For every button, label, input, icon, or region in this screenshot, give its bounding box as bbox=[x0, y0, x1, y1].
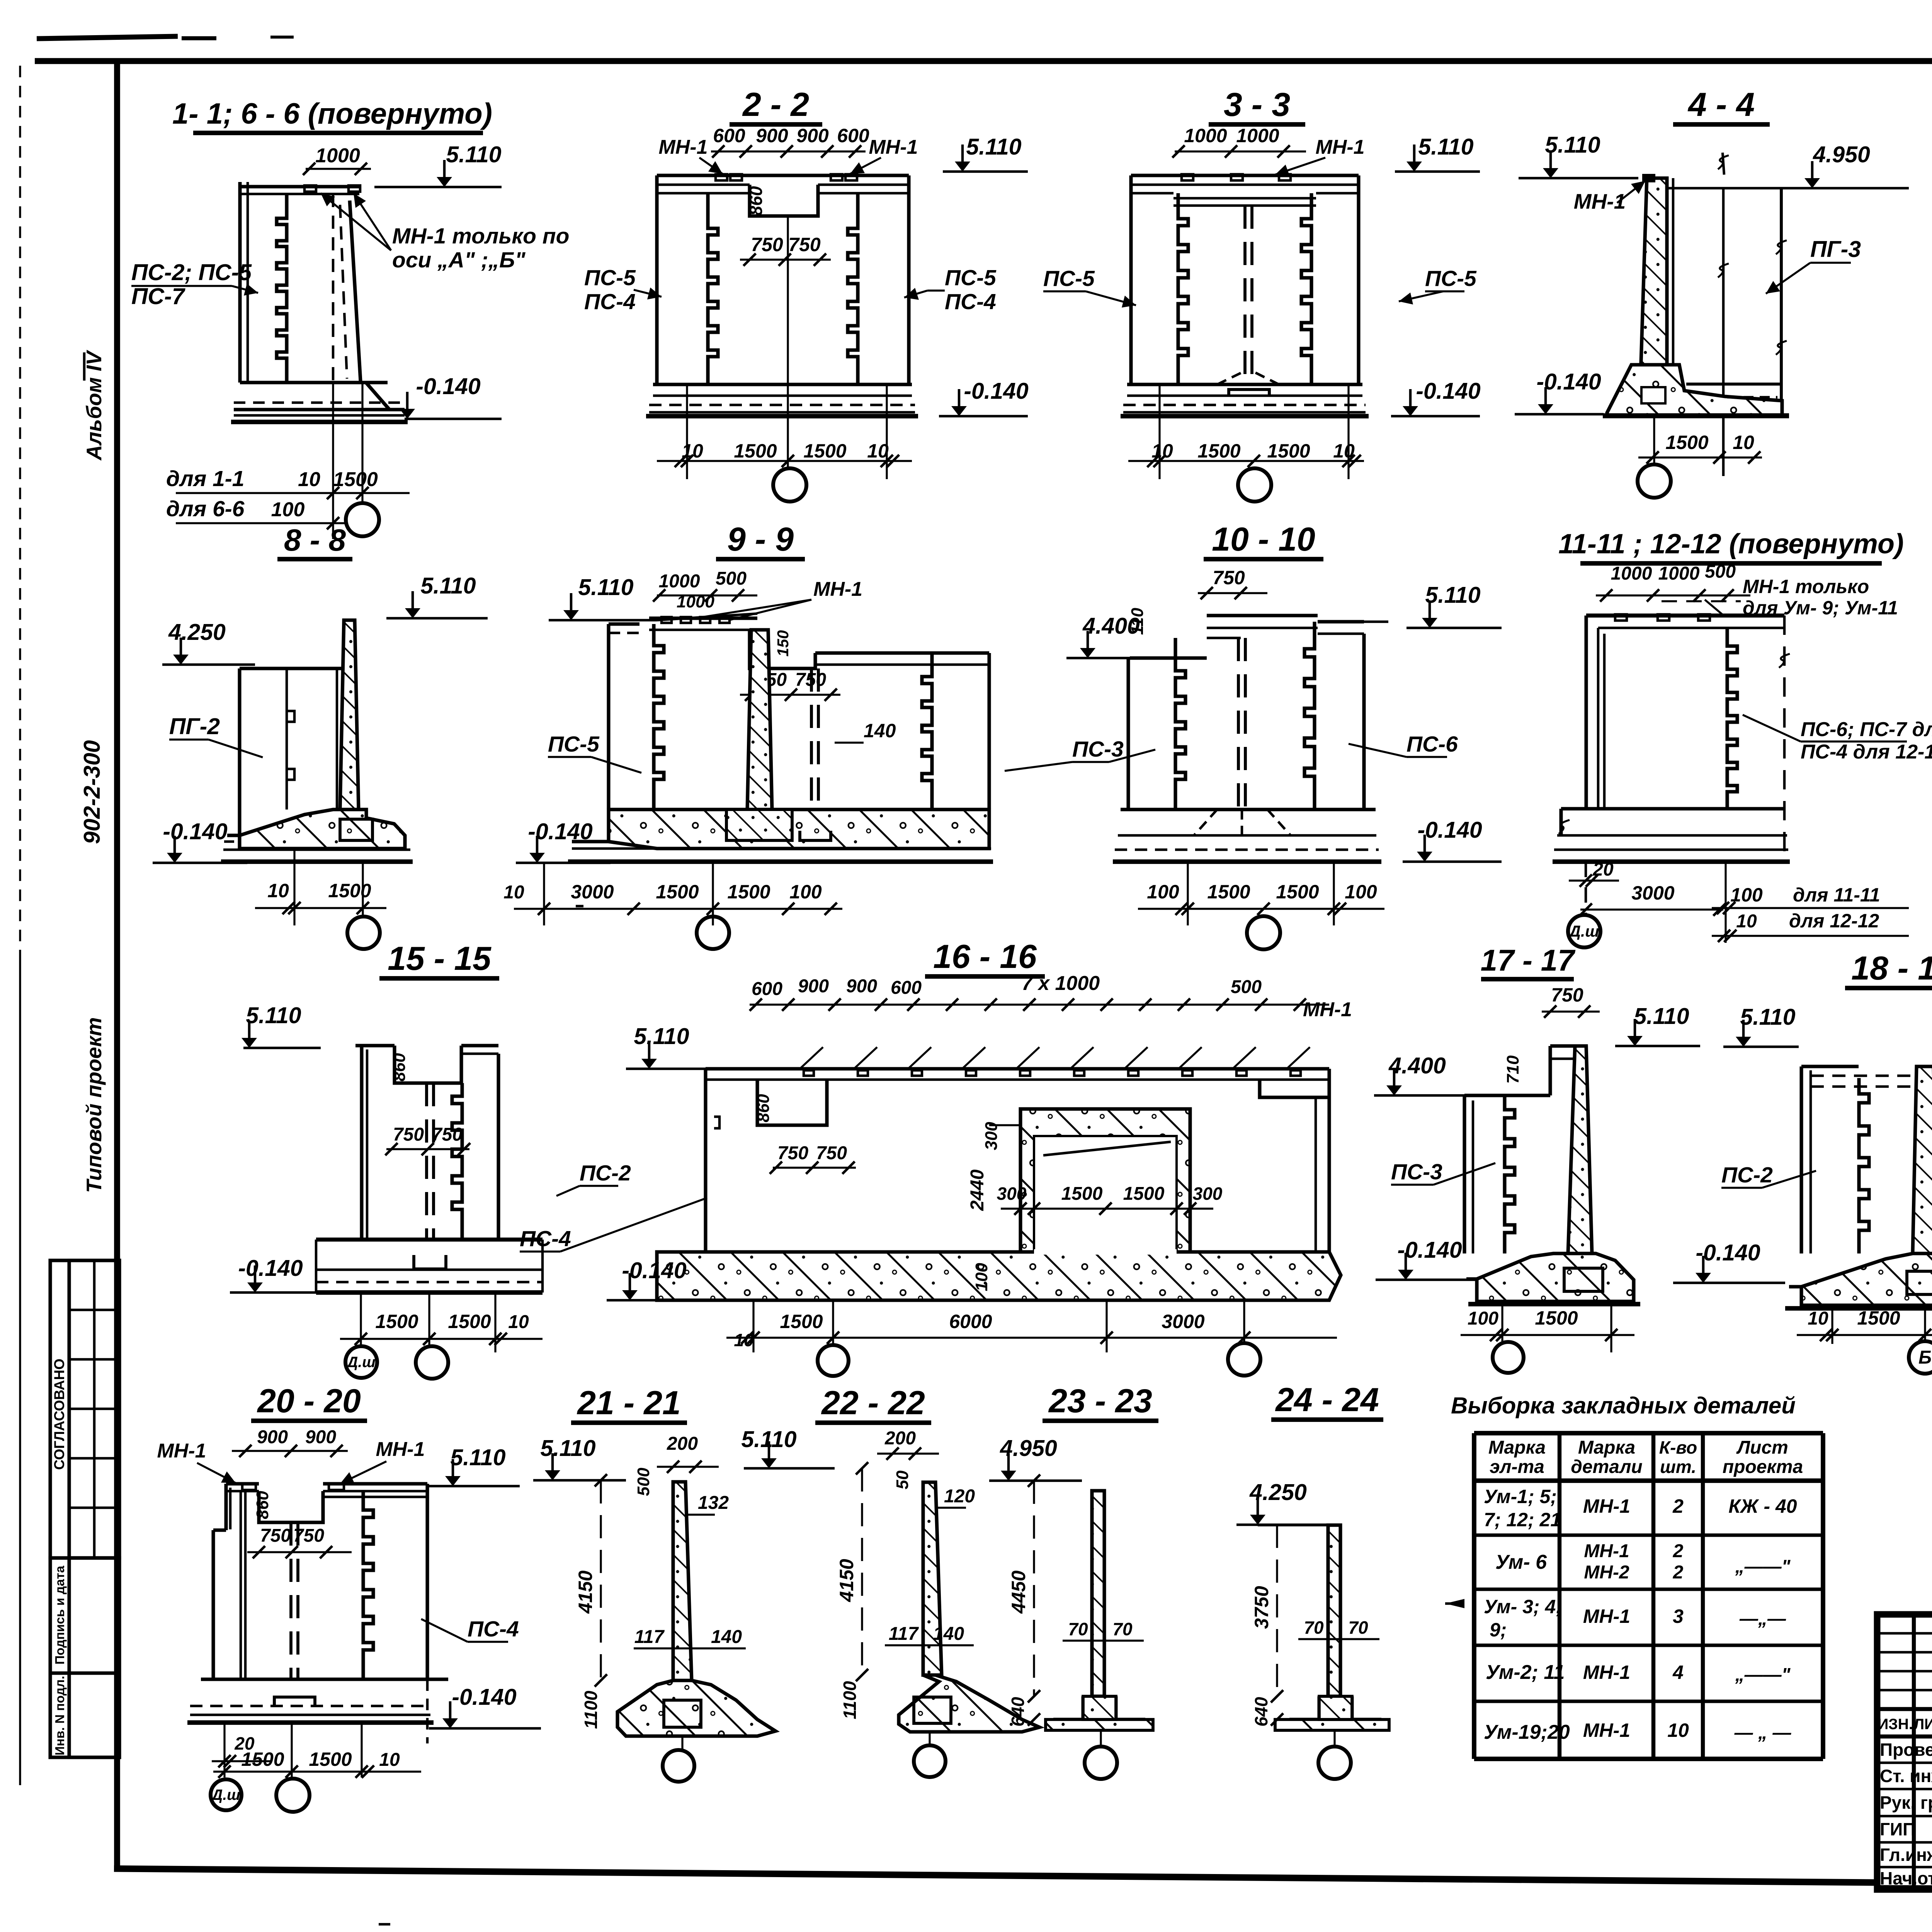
svg-text:МН-1: МН-1 bbox=[157, 1440, 206, 1462]
svg-text:132: 132 bbox=[698, 1493, 729, 1513]
svg-text:для 6-6: для 6-6 bbox=[166, 497, 245, 521]
svg-text:ПС-7: ПС-7 bbox=[131, 284, 186, 309]
svg-text:ПС-5: ПС-5 bbox=[584, 265, 636, 290]
svg-text:1500: 1500 bbox=[1197, 440, 1240, 462]
svg-text:1500: 1500 bbox=[780, 1311, 823, 1332]
svg-text:МН-1: МН-1 bbox=[1583, 1605, 1630, 1627]
svg-text:900: 900 bbox=[756, 125, 788, 146]
svg-text:500: 500 bbox=[1705, 561, 1736, 582]
svg-text:16 - 16: 16 - 16 bbox=[933, 938, 1037, 975]
svg-text:МН-1: МН-1 bbox=[1583, 1495, 1630, 1517]
svg-text:ЛИСТ: ЛИСТ bbox=[1914, 1716, 1932, 1733]
svg-text:МН-1: МН-1 bbox=[1303, 998, 1352, 1021]
svg-text:оси „А" ;„Б": оси „А" ;„Б" bbox=[392, 248, 526, 272]
svg-text:70: 70 bbox=[1304, 1617, 1324, 1638]
svg-text:Подпись и дата: Подпись и дата bbox=[53, 1566, 67, 1665]
svg-text:1500: 1500 bbox=[448, 1311, 491, 1332]
svg-text:860: 860 bbox=[746, 186, 766, 216]
svg-text:140: 140 bbox=[933, 1624, 964, 1644]
svg-text:11-11 ; 12-12 (повернуто): 11-11 ; 12-12 (повернуто) bbox=[1558, 529, 1904, 560]
section 4-4 axis circle bbox=[1638, 464, 1671, 498]
svg-text:22 - 22: 22 - 22 bbox=[821, 1384, 925, 1422]
svg-text:600: 600 bbox=[713, 125, 745, 146]
svg-text:750: 750 bbox=[393, 1124, 424, 1145]
svg-text:МН-1: МН-1 bbox=[1583, 1719, 1630, 1741]
svg-text:640: 640 bbox=[1251, 1697, 1271, 1726]
svg-text:К-во: К-во bbox=[1659, 1437, 1697, 1458]
svg-text:860: 860 bbox=[754, 1094, 773, 1122]
section 23-23 footing bbox=[1053, 1696, 1083, 1719]
section 9-9 left wall bbox=[607, 624, 610, 810]
section 16-16 elevation 5.110 bbox=[626, 1068, 707, 1070]
section 1-1 monolithic column bbox=[350, 201, 361, 381]
svg-text:2440: 2440 bbox=[967, 1169, 988, 1211]
svg-text:— „ —: — „ — bbox=[1734, 1723, 1792, 1743]
section 24-24 column bbox=[1328, 1525, 1340, 1696]
section 3-3 elevation -0.140 bbox=[1391, 415, 1480, 418]
svg-text:100: 100 bbox=[1345, 881, 1377, 903]
svg-text:5.110: 5.110 bbox=[634, 1024, 689, 1049]
svg-text:-0.140: -0.140 bbox=[622, 1258, 686, 1283]
section 17-17 axis circle bbox=[1493, 1342, 1524, 1373]
svg-text:750: 750 bbox=[788, 234, 821, 255]
section 2-2 top slab bbox=[657, 173, 909, 177]
svg-text:10: 10 bbox=[1667, 1719, 1689, 1741]
section 15-15 center axis dashed bbox=[425, 1083, 428, 1240]
svg-text:4450: 4450 bbox=[1008, 1570, 1029, 1614]
section 2-2 elevation -0.140 bbox=[939, 415, 1028, 418]
svg-text:1500: 1500 bbox=[241, 1748, 284, 1770]
svg-text:МН-1: МН-1 bbox=[1583, 1662, 1630, 1683]
svg-text:1000: 1000 bbox=[1184, 125, 1227, 146]
svg-text:ПС-4: ПС-4 bbox=[584, 289, 636, 314]
svg-text:Гл.инж.от: Гл.инж.от bbox=[1880, 1845, 1932, 1865]
svg-text:5.110: 5.110 bbox=[1634, 1003, 1689, 1029]
svg-text:5.110: 5.110 bbox=[1418, 134, 1473, 160]
section 2-2 elevation 5.110 bbox=[943, 170, 1028, 173]
svg-text:640: 640 bbox=[1008, 1697, 1028, 1726]
section 17-17 footing bbox=[1477, 1253, 1634, 1301]
svg-text:проекта: проекта bbox=[1723, 1457, 1803, 1477]
svg-text:Б: Б bbox=[1918, 1347, 1932, 1368]
section 20-20 circles bbox=[211, 1779, 241, 1810]
svg-text:1500: 1500 bbox=[333, 468, 378, 491]
section 20-20 top slab bbox=[226, 1482, 259, 1485]
section 2-2 center notch 860 bbox=[750, 185, 818, 216]
svg-text:10: 10 bbox=[1808, 1308, 1828, 1329]
left margin box: Подпись и дата / Инв. № подл. bbox=[50, 1558, 119, 1757]
section 9-9 elevation -0.140 bbox=[516, 862, 611, 864]
section 1-1 elevation -0.140 bbox=[405, 418, 502, 420]
section 4-4 footing bbox=[1607, 365, 1782, 416]
section 9-9 elevation 5.110 bbox=[549, 619, 657, 622]
svg-text:3 - 3: 3 - 3 bbox=[1224, 86, 1290, 123]
svg-text:СОГЛАСОВАНО: СОГЛАСОВАНО bbox=[51, 1359, 67, 1470]
section 9-9 notch 860 bbox=[750, 630, 815, 668]
svg-text:20 - 20: 20 - 20 bbox=[257, 1383, 361, 1420]
svg-text:750: 750 bbox=[777, 1143, 808, 1163]
section 4-4 elevation -0.140 bbox=[1515, 413, 1604, 416]
section 21-21 axis circle bbox=[663, 1750, 694, 1782]
svg-text:5.110: 5.110 bbox=[1740, 1004, 1795, 1030]
svg-text:5.110: 5.110 bbox=[246, 1003, 301, 1028]
svg-text:750: 750 bbox=[432, 1124, 463, 1145]
svg-text:4150: 4150 bbox=[836, 1559, 857, 1602]
svg-text:Ум- 3; 4;: Ум- 3; 4; bbox=[1484, 1596, 1562, 1617]
section 8-8 wall bbox=[240, 667, 344, 670]
section 2-2 axis circle bbox=[773, 468, 806, 502]
section 8-8 footing bbox=[240, 810, 405, 849]
svg-text:1- 1; 6 - 6 (повернуто): 1- 1; 6 - 6 (повернуто) bbox=[172, 97, 492, 130]
svg-text:Выборка закладных деталей: Выборка закладных деталей bbox=[1451, 1393, 1796, 1418]
section 1-1 elevation 5.110 bbox=[374, 186, 502, 189]
section 16-16 right end bbox=[1260, 1080, 1329, 1097]
svg-text:-0.140: -0.140 bbox=[1536, 369, 1601, 395]
svg-text:50: 50 bbox=[893, 1470, 912, 1489]
section 15-15 right wall bbox=[497, 1054, 500, 1240]
svg-text:750: 750 bbox=[816, 1143, 847, 1163]
section 10-10 elevation 5.110 bbox=[1406, 627, 1502, 629]
svg-text:8 - 8: 8 - 8 bbox=[284, 523, 346, 557]
svg-text:10: 10 bbox=[1736, 911, 1757, 932]
section 23-23 axis circle bbox=[1085, 1747, 1117, 1779]
section 3-3 top slab bbox=[1131, 173, 1359, 177]
svg-text:Марка: Марка bbox=[1578, 1437, 1635, 1458]
svg-text:1500: 1500 bbox=[1207, 881, 1250, 903]
svg-text:5.110: 5.110 bbox=[578, 575, 633, 600]
svg-text:300: 300 bbox=[1193, 1184, 1223, 1204]
svg-text:ПС-2: ПС-2 bbox=[1721, 1163, 1773, 1187]
svg-text:900: 900 bbox=[798, 976, 829, 997]
svg-text:1500: 1500 bbox=[375, 1311, 418, 1332]
svg-text:5.110: 5.110 bbox=[741, 1427, 796, 1452]
svg-text:750: 750 bbox=[1213, 567, 1245, 588]
svg-text:„——": „——" bbox=[1735, 1556, 1791, 1577]
svg-text:5.110: 5.110 bbox=[966, 134, 1021, 160]
svg-text:Ум-2; 11: Ум-2; 11 bbox=[1486, 1661, 1565, 1684]
svg-text:860: 860 bbox=[253, 1491, 272, 1519]
svg-text:1100: 1100 bbox=[840, 1681, 860, 1719]
section 8-8 elevation -0.140 bbox=[153, 862, 247, 864]
svg-text:ПС-5: ПС-5 bbox=[1043, 266, 1095, 291]
svg-text:10: 10 bbox=[298, 468, 320, 491]
section 15-15 top bbox=[355, 1044, 395, 1047]
section 18-18 elevation -0.140 bbox=[1673, 1282, 1785, 1284]
section 3-3 axis circle bbox=[1238, 468, 1271, 502]
svg-text:ПС-4: ПС-4 bbox=[945, 289, 996, 314]
section 15-15 circles bbox=[345, 1346, 377, 1378]
section 22-22 column bbox=[923, 1482, 942, 1675]
section 3-3 footing bbox=[1127, 383, 1362, 386]
svg-text:9 - 9: 9 - 9 bbox=[727, 521, 794, 558]
section 24-24 footing bbox=[1289, 1696, 1319, 1719]
section 1-1 axis circle bbox=[346, 503, 379, 536]
section 21-21 footing bbox=[617, 1680, 776, 1736]
svg-text:10 - 10: 10 - 10 bbox=[1212, 521, 1315, 558]
svg-text:200: 200 bbox=[884, 1428, 916, 1449]
svg-text:Типовой проект: Типовой проект bbox=[82, 1017, 106, 1193]
section 9-9 right wall bbox=[987, 653, 991, 810]
svg-text:1500: 1500 bbox=[1123, 1184, 1165, 1204]
svg-text:Д.ш: Д.ш bbox=[346, 1354, 376, 1371]
svg-text:600: 600 bbox=[891, 978, 922, 998]
section 8-8 elevation 4.250 bbox=[162, 663, 255, 666]
svg-text:4 - 4: 4 - 4 bbox=[1687, 86, 1755, 123]
svg-text:1500: 1500 bbox=[1061, 1184, 1103, 1204]
svg-text:Рук. гр.: Рук. гр. bbox=[1880, 1793, 1932, 1813]
section 20-20 elevation 5.110 bbox=[429, 1485, 520, 1488]
section 10-10 axis circle bbox=[1247, 916, 1280, 949]
svg-text:10: 10 bbox=[379, 1750, 400, 1770]
svg-text:5.110: 5.110 bbox=[446, 142, 501, 167]
section 2-2 footing bbox=[653, 383, 912, 386]
svg-text:ПС-5: ПС-5 bbox=[1425, 266, 1477, 291]
svg-text:ИЗН.: ИЗН. bbox=[1878, 1716, 1913, 1733]
svg-text:ПГ-3: ПГ-3 bbox=[1810, 236, 1861, 262]
svg-text:-0.140: -0.140 bbox=[416, 374, 480, 399]
section 9-9 top slab bbox=[609, 622, 639, 626]
section 3-3 right wall bbox=[1357, 175, 1360, 384]
section 11-11 right notched edge bbox=[1727, 634, 1737, 809]
svg-text:15 - 15: 15 - 15 bbox=[388, 940, 492, 977]
section 20-20 center axis dashed bbox=[289, 1522, 293, 1679]
svg-text:1500: 1500 bbox=[803, 440, 846, 462]
svg-text:шт.: шт. bbox=[1660, 1457, 1696, 1477]
svg-text:-0.140: -0.140 bbox=[964, 378, 1028, 404]
section 9-9 center axis dashed bbox=[810, 668, 813, 825]
svg-text:„——": „——" bbox=[1735, 1665, 1791, 1685]
section 16-16 door opening bbox=[1020, 1109, 1190, 1252]
svg-text:2 - 2: 2 - 2 bbox=[742, 86, 809, 123]
section 16-16 circles bbox=[818, 1345, 849, 1376]
svg-text:Лист: Лист bbox=[1736, 1437, 1788, 1458]
svg-text:1500: 1500 bbox=[727, 881, 770, 903]
svg-text:100: 100 bbox=[1468, 1308, 1498, 1329]
section 17-17 monolithic column bbox=[1568, 1046, 1592, 1253]
section 3-3 center axis bbox=[1243, 206, 1247, 386]
svg-text:750: 750 bbox=[1551, 984, 1583, 1006]
section 18-18 left wall bbox=[1799, 1066, 1803, 1253]
svg-text:10: 10 bbox=[508, 1312, 529, 1332]
svg-text:5.110: 5.110 bbox=[420, 573, 476, 599]
svg-text:ПС-3: ПС-3 bbox=[1072, 737, 1124, 762]
section 21-21 elevation 5.110 bbox=[533, 1479, 626, 1482]
svg-text:для 1-1: для 1-1 bbox=[166, 466, 244, 491]
title block mini revision rows bbox=[1877, 1632, 1932, 1635]
svg-text:ПС-3: ПС-3 bbox=[1391, 1160, 1442, 1184]
svg-text:Ст. инж.: Ст. инж. bbox=[1880, 1766, 1932, 1786]
svg-text:3000: 3000 bbox=[1631, 882, 1674, 904]
svg-text:ПС-4 для 12-12: ПС-4 для 12-12 bbox=[1801, 741, 1932, 763]
svg-text:1500: 1500 bbox=[656, 881, 699, 903]
svg-text:-0.140: -0.140 bbox=[238, 1255, 303, 1281]
svg-text:200: 200 bbox=[667, 1434, 698, 1454]
svg-text:-0.140: -0.140 bbox=[1416, 378, 1480, 404]
svg-text:МН-1: МН-1 bbox=[1315, 136, 1364, 158]
svg-text:ПС-2: ПС-2 bbox=[580, 1161, 631, 1185]
svg-text:1500: 1500 bbox=[1665, 432, 1708, 453]
svg-text:Ум-1; 5;: Ум-1; 5; bbox=[1484, 1486, 1557, 1507]
section 20-20 elevation -0.140 bbox=[429, 1727, 541, 1730]
svg-text:Нач.отд.: Нач.отд. bbox=[1880, 1868, 1932, 1888]
svg-text:1500: 1500 bbox=[1857, 1307, 1900, 1329]
section 3-3 elevation 5.110 bbox=[1395, 170, 1480, 173]
section 8-8 axis circle bbox=[347, 917, 380, 949]
sheet edge lines bbox=[19, 66, 21, 958]
section 3-3 left wall bbox=[1129, 175, 1133, 384]
svg-text:750: 750 bbox=[260, 1526, 291, 1546]
svg-text:70: 70 bbox=[1068, 1619, 1088, 1639]
svg-text:МН-1: МН-1 bbox=[658, 136, 707, 158]
svg-text:МН-1: МН-1 bbox=[1584, 1541, 1629, 1561]
svg-text:900: 900 bbox=[257, 1427, 288, 1447]
svg-text:-0.140: -0.140 bbox=[1417, 817, 1482, 843]
section 24-24 elevation 4.250 bbox=[1236, 1524, 1331, 1526]
svg-text:ПС-5: ПС-5 bbox=[945, 265, 997, 290]
svg-text:7; 12; 21: 7; 12; 21 bbox=[1484, 1509, 1561, 1531]
section 11-11 wall box bbox=[1586, 614, 1784, 617]
svg-text:600: 600 bbox=[752, 979, 782, 999]
svg-text:1000: 1000 bbox=[659, 571, 700, 592]
svg-text:2: 2 bbox=[1673, 1541, 1684, 1561]
svg-text:МН-1 только по: МН-1 только по bbox=[392, 224, 569, 248]
section 10-10 right wall bbox=[1362, 634, 1366, 810]
svg-text:МН-2: МН-2 bbox=[1584, 1562, 1629, 1583]
svg-text:2: 2 bbox=[1673, 1562, 1684, 1583]
svg-text:4.250: 4.250 bbox=[1249, 1480, 1307, 1505]
section 4-4 wall lines bbox=[1672, 178, 1675, 365]
scan artifacts top-left bbox=[37, 36, 178, 39]
svg-text:ПС-6: ПС-6 bbox=[1406, 732, 1458, 757]
svg-text:110: 110 bbox=[1128, 607, 1147, 635]
section 10-10 elevation 4.400 bbox=[1066, 657, 1162, 660]
svg-text:ГИП: ГИП bbox=[1880, 1819, 1915, 1839]
svg-text:1000: 1000 bbox=[1236, 125, 1279, 146]
section 2-2 right wall bbox=[907, 175, 910, 384]
svg-text:3000: 3000 bbox=[1162, 1311, 1204, 1332]
svg-text:Альбом IV: Альбом IV bbox=[82, 350, 106, 461]
section 4-4 elevation 5.110 bbox=[1519, 177, 1638, 180]
svg-text:Марка: Марка bbox=[1488, 1437, 1546, 1458]
svg-text:МН-1: МН-1 bbox=[869, 136, 918, 158]
svg-text:710: 710 bbox=[1503, 1055, 1522, 1084]
svg-text:17 - 17: 17 - 17 bbox=[1481, 943, 1576, 977]
svg-text:Ум- 6: Ум- 6 bbox=[1495, 1551, 1547, 1573]
svg-text:-0.140: -0.140 bbox=[452, 1684, 516, 1710]
svg-text:70: 70 bbox=[1348, 1617, 1368, 1638]
svg-text:7 x 1000: 7 x 1000 bbox=[1022, 972, 1100, 995]
section 15-15 elevation 5.110 bbox=[243, 1047, 321, 1049]
section 9-9 footing hatched ground bbox=[609, 810, 989, 849]
svg-text:5.110: 5.110 bbox=[1425, 582, 1480, 608]
svg-text:140: 140 bbox=[864, 720, 896, 742]
section 22-22 footing bbox=[899, 1675, 1039, 1732]
section 20-20 footing bbox=[201, 1677, 448, 1681]
svg-text:902-2-300: 902-2-300 bbox=[79, 740, 105, 844]
svg-text:150: 150 bbox=[774, 630, 792, 657]
svg-text:2: 2 bbox=[1672, 1495, 1684, 1517]
svg-text:4.400: 4.400 bbox=[1388, 1053, 1446, 1078]
section 18-18 elevation 5.110 bbox=[1723, 1046, 1799, 1048]
section 17-17 top slab bbox=[1550, 1044, 1586, 1048]
svg-text:900: 900 bbox=[846, 976, 877, 997]
svg-text:ПС-4: ПС-4 bbox=[520, 1226, 571, 1251]
svg-text:для 12-12: для 12-12 bbox=[1789, 910, 1879, 932]
section 11-11 footing bbox=[1561, 807, 1784, 810]
section 18-18 monolithic columns bbox=[1913, 1066, 1932, 1253]
svg-text:3750: 3750 bbox=[1251, 1586, 1272, 1629]
section 4-4 monolithic column МН-1 bbox=[1640, 178, 1667, 386]
section 15-15 footing bbox=[316, 1238, 543, 1242]
svg-text:1000: 1000 bbox=[315, 145, 360, 167]
section 22-22 axis circle bbox=[914, 1745, 946, 1777]
section 16-16 hatched ground bbox=[657, 1252, 1341, 1300]
section 23-23 column bbox=[1092, 1491, 1104, 1696]
section 10-10 footing bbox=[1121, 808, 1376, 811]
svg-text:ПС-2; ПС-5: ПС-2; ПС-5 bbox=[131, 260, 252, 285]
svg-text:3: 3 bbox=[1673, 1605, 1684, 1627]
section 8-8 monolithic column bbox=[340, 620, 359, 810]
svg-text:ПС-5: ПС-5 bbox=[548, 732, 600, 757]
section 17-17 elevation 5.110 bbox=[1615, 1045, 1700, 1048]
svg-text:КЖ - 40: КЖ - 40 bbox=[1728, 1495, 1797, 1517]
svg-text:24 - 24: 24 - 24 bbox=[1275, 1381, 1379, 1418]
svg-text:9;: 9; bbox=[1490, 1619, 1507, 1641]
svg-text:для 11-11: для 11-11 bbox=[1793, 884, 1880, 906]
section 8-8 elevation 5.110 bbox=[386, 617, 488, 620]
svg-text:4.950: 4.950 bbox=[1813, 142, 1870, 167]
svg-text:ПГ-2: ПГ-2 bbox=[169, 714, 220, 739]
svg-text:-0.140: -0.140 bbox=[528, 819, 592, 844]
svg-text:140: 140 bbox=[711, 1627, 742, 1647]
sheet frame bbox=[35, 58, 1932, 64]
section 18-18 footing bbox=[1801, 1253, 1932, 1305]
svg-text:1000: 1000 bbox=[1658, 563, 1700, 584]
svg-text:10: 10 bbox=[503, 882, 524, 903]
section 11-11 axis circle Дш bbox=[1568, 915, 1600, 947]
svg-text:МН-1: МН-1 bbox=[376, 1438, 425, 1461]
section 20-20 right wall bbox=[425, 1484, 429, 1679]
svg-text:900: 900 bbox=[305, 1427, 336, 1447]
svg-text:100: 100 bbox=[271, 498, 305, 521]
svg-text:10: 10 bbox=[867, 440, 889, 462]
svg-text:ПС-4: ПС-4 bbox=[468, 1617, 519, 1641]
svg-text:4.950: 4.950 bbox=[1000, 1435, 1057, 1461]
svg-text:—„—: —„— bbox=[1739, 1609, 1786, 1629]
embedded parts table bbox=[1472, 1433, 1476, 1759]
svg-text:750: 750 bbox=[751, 234, 783, 255]
section 20-20 left wall bbox=[224, 1484, 228, 1530]
section 10-10 elevation -0.140 bbox=[1403, 861, 1502, 863]
svg-text:100: 100 bbox=[789, 881, 822, 903]
svg-text:120: 120 bbox=[944, 1486, 975, 1507]
section 10-10 center axis dashed bbox=[1237, 638, 1240, 810]
svg-text:Ум-19;20: Ум-19;20 bbox=[1484, 1721, 1570, 1743]
svg-text:10: 10 bbox=[1733, 432, 1754, 453]
svg-text:100: 100 bbox=[972, 1263, 991, 1291]
svg-text:детали: детали bbox=[1571, 1457, 1643, 1477]
svg-text:5.110: 5.110 bbox=[450, 1445, 505, 1470]
svg-text:Инв. N подл.: Инв. N подл. bbox=[53, 1676, 67, 1755]
svg-text:21 - 21: 21 - 21 bbox=[577, 1384, 681, 1422]
svg-text:1000: 1000 bbox=[1611, 563, 1652, 584]
svg-text:3000: 3000 bbox=[571, 881, 614, 903]
svg-text:70: 70 bbox=[1112, 1619, 1133, 1639]
section 9-9 monolithic column hatched bbox=[747, 630, 772, 810]
svg-text:1500: 1500 bbox=[309, 1748, 352, 1770]
svg-text:5.110: 5.110 bbox=[1545, 132, 1600, 158]
svg-text:900: 900 bbox=[796, 125, 829, 146]
